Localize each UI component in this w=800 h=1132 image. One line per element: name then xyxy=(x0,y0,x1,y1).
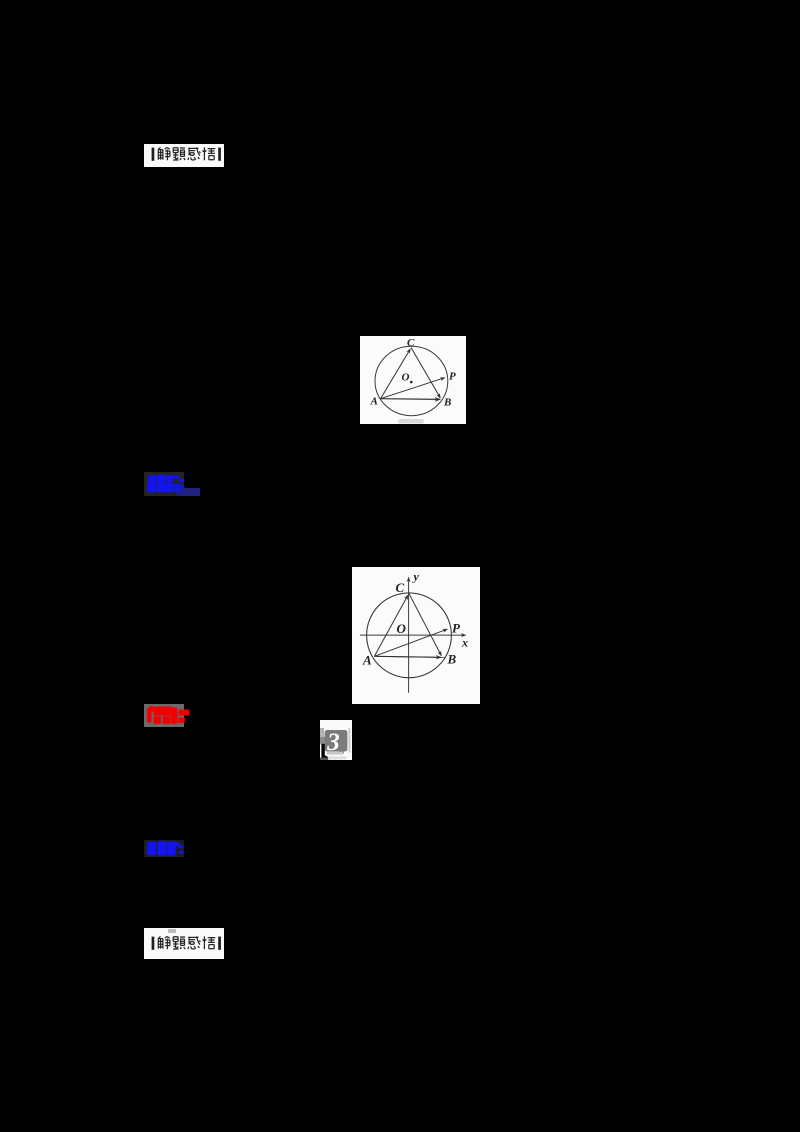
dark grey chip bottom-left xyxy=(320,758,328,760)
hanzi 感 xyxy=(188,147,200,160)
vector A->C xyxy=(381,349,411,399)
diagram 2: circle on coordinate axes with A, B, C, O, P xyxy=(352,567,480,704)
left tab xyxy=(320,737,326,744)
vector A->B xyxy=(374,656,440,657)
svg-text:A: A xyxy=(362,653,372,668)
circle xyxy=(367,593,452,678)
centre dot O xyxy=(410,381,413,384)
diagram 1: circle with inscribed triangle ABC, centre O, point P xyxy=(360,336,466,424)
header box "解題感悟" (bottom) xyxy=(144,928,224,959)
right light streak xyxy=(348,728,350,753)
svg-text:O: O xyxy=(402,372,410,384)
svg-text:B: B xyxy=(443,397,451,409)
hanzi 悟 xyxy=(203,147,216,160)
header box "解題感悟" (top) xyxy=(144,144,224,167)
svg-text:C: C xyxy=(396,580,405,595)
right bar xyxy=(218,148,221,161)
vector A->P xyxy=(374,629,447,656)
svg-text:B: B xyxy=(447,652,457,667)
blue label box 1 xyxy=(144,472,184,496)
grey smudge top xyxy=(168,929,176,933)
numbered badge "3" xyxy=(320,720,352,760)
circle O xyxy=(375,346,448,415)
svg-text:P: P xyxy=(449,371,456,383)
blue glyph blobs row 1 xyxy=(144,472,202,496)
small grey foot of badge xyxy=(339,751,344,754)
navy underline rect xyxy=(177,488,201,496)
svg-text:A: A xyxy=(370,396,378,408)
chord AB thin line xyxy=(374,656,445,657)
left bar xyxy=(152,148,155,161)
grey smudge xyxy=(399,419,424,423)
svg-text:O: O xyxy=(397,621,407,636)
vector A->B xyxy=(381,398,441,401)
hanzi 題 xyxy=(173,148,185,160)
left light streak xyxy=(320,728,324,745)
segment C->B xyxy=(411,348,440,398)
vector A->P xyxy=(381,378,445,399)
grey bar under badge xyxy=(327,752,343,755)
svg-text:P: P xyxy=(452,621,461,636)
svg-text:C: C xyxy=(407,337,415,349)
y-axis xyxy=(408,578,410,693)
svg-text:y: y xyxy=(412,570,420,584)
vector A->C xyxy=(374,595,408,656)
lighter wide bar xyxy=(329,756,347,759)
black partial glyph bottom-left xyxy=(321,744,327,759)
x-axis xyxy=(360,634,466,636)
hanzi 解 xyxy=(158,147,170,160)
grey square of badge xyxy=(325,730,348,752)
blue label box 2 xyxy=(144,840,184,857)
svg-text:x: x xyxy=(461,636,468,650)
red label box xyxy=(144,704,184,727)
vector C->B xyxy=(409,593,442,655)
